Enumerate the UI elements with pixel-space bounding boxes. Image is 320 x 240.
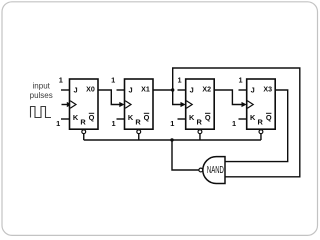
wire: X1 feedback to NAND input (up and over the top) — [173, 68, 300, 177]
svg-text:1: 1 — [177, 76, 181, 85]
flip-flop U1 (X0) body — [70, 79, 99, 129]
svg-text:K: K — [73, 113, 79, 122]
U1 clock wedge — [70, 101, 76, 109]
U2 J input stub — [117, 89, 125, 91]
wire: X1 output to U3 clock — [153, 90, 182, 105]
label: input pulses — [30, 82, 53, 100]
U1 K input stub — [61, 118, 70, 120]
NAND gate U5 body — [203, 157, 225, 184]
U2 clock wedge — [125, 101, 131, 109]
arrowhead into U3 clock — [181, 102, 186, 107]
U3 K input stub — [178, 118, 186, 120]
svg-text:1: 1 — [232, 119, 236, 128]
arrowhead into U4 clock — [242, 102, 247, 107]
flip-flop U4 (X3) body — [247, 79, 276, 129]
NAND output bubble — [199, 168, 203, 172]
svg-text:Q: Q — [266, 113, 272, 122]
flip-flop U3 (X2) body — [186, 79, 215, 129]
U2 reset bubble — [137, 130, 141, 134]
wire: X3 output to NAND input — [225, 90, 288, 162]
svg-text:Q: Q — [89, 113, 95, 122]
U4 clock wedge — [247, 101, 253, 109]
svg-text:1: 1 — [56, 119, 60, 128]
U2 K input stub — [117, 118, 125, 120]
U4 J input stub — [239, 89, 247, 91]
wire: reset bus to U4 R — [260, 134, 262, 140]
wire: X2 output to U4 clock — [214, 90, 242, 105]
U4 K input stub — [239, 118, 247, 120]
svg-text:J: J — [251, 85, 255, 94]
U3 reset bubble — [198, 130, 202, 134]
junction node on X1 output — [171, 88, 174, 91]
svg-text:J: J — [128, 85, 132, 94]
svg-text:J: J — [73, 85, 77, 94]
arrowhead into U2 clock — [119, 102, 124, 107]
svg-text:R: R — [197, 118, 203, 127]
svg-text:R: R — [80, 118, 86, 127]
svg-text:input: input — [33, 82, 51, 91]
svg-text:1: 1 — [238, 76, 242, 85]
svg-text:1: 1 — [170, 119, 174, 128]
arrowhead into U1 clock — [67, 102, 72, 107]
wire: reset bus to U1 R — [83, 134, 85, 140]
wire: NAND output to reset bus — [172, 140, 199, 170]
svg-text:Q: Q — [205, 113, 211, 122]
svg-text:X3: X3 — [263, 86, 272, 94]
svg-text:K: K — [128, 113, 134, 122]
flip-flop U2 (X1) body — [125, 79, 154, 129]
wire: X0 output to U2 clock — [98, 90, 121, 105]
svg-text:K: K — [250, 113, 256, 122]
U3 clock wedge — [186, 101, 192, 109]
svg-text:J: J — [190, 85, 194, 94]
junction node on reset bus — [170, 138, 173, 141]
reset bus wire — [84, 139, 261, 141]
svg-text:K: K — [189, 113, 195, 122]
svg-text:X0: X0 — [86, 86, 95, 94]
U1 reset bubble — [82, 130, 86, 134]
U4 reset bubble — [259, 130, 263, 134]
svg-text:R: R — [135, 118, 141, 127]
svg-text:1: 1 — [111, 76, 115, 85]
wire: reset bus to U2 R — [138, 134, 140, 140]
svg-text:1: 1 — [111, 119, 115, 128]
svg-text:X2: X2 — [202, 86, 211, 94]
svg-text:X1: X1 — [141, 86, 150, 94]
svg-text:NAND: NAND — [207, 164, 224, 175]
U3 J input stub — [178, 89, 186, 91]
svg-text:Q: Q — [144, 113, 150, 122]
svg-text:1: 1 — [59, 76, 63, 85]
wire: reset bus to U3 R — [199, 134, 201, 140]
U1 J input stub — [61, 89, 70, 91]
svg-text:R: R — [258, 118, 264, 127]
clock waveform symbol — [31, 107, 52, 118]
wire: clock input to U1 — [62, 104, 70, 106]
svg-text:pulses: pulses — [30, 91, 53, 100]
